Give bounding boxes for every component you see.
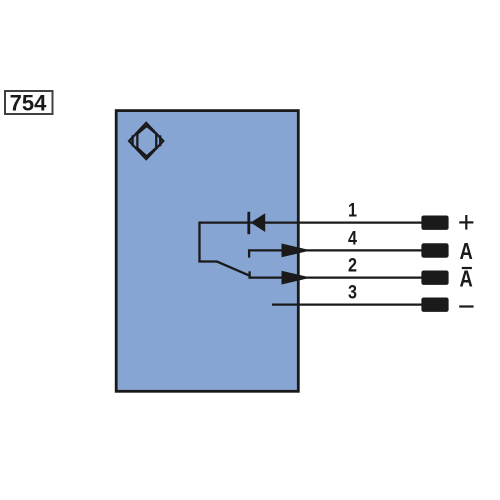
svg-text:754: 754 [10,90,47,115]
svg-text:3: 3 [348,281,357,303]
svg-text:4: 4 [348,227,357,249]
svg-text:A: A [460,239,473,264]
svg-text:A: A [460,267,473,292]
svg-text:1: 1 [348,199,357,221]
svg-text:2: 2 [348,254,357,276]
